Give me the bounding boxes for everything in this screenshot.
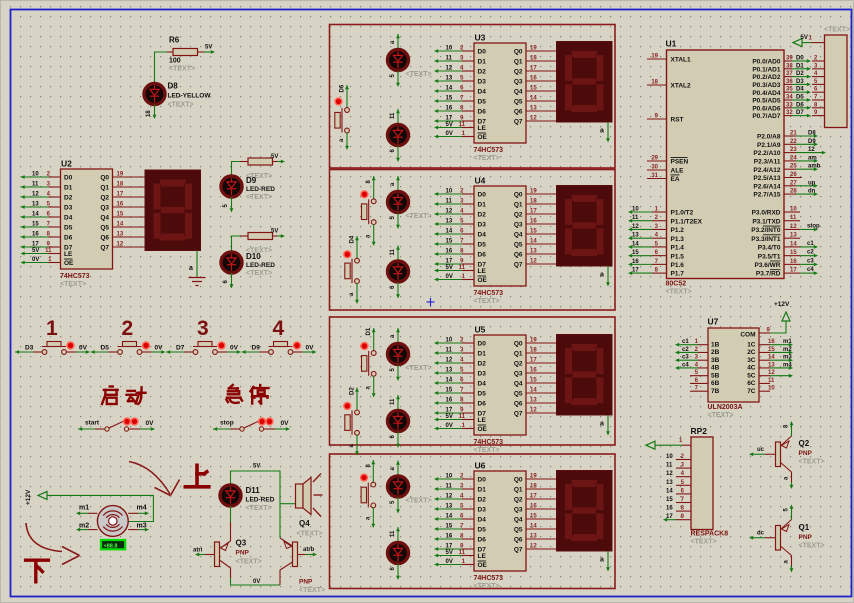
svg-text:Q3: Q3 [514, 222, 523, 229]
svg-text:37: 37 [786, 71, 793, 77]
svg-text:17: 17 [32, 242, 39, 248]
wire RP2 pin 4 net 12 [676, 476, 691, 478]
svg-text:36: 36 [786, 79, 793, 85]
wire below LED U6 upper [397, 497, 399, 511]
transistor Q2 [776, 442, 781, 467]
svg-text:10: 10 [790, 207, 797, 213]
wire U3 Q6 to display [526, 110, 557, 112]
wire U7 5C [759, 375, 770, 377]
wire U1 P1.2 net 12 [652, 228, 667, 230]
svg-text:P2.4/A12: P2.4/A12 [753, 167, 780, 174]
latch U4 [474, 186, 526, 286]
svg-text:P1.2: P1.2 [671, 227, 685, 234]
wire U3 D6 net 16 [462, 110, 474, 112]
wire below LED U5 lower [397, 432, 399, 446]
svg-text:Q0: Q0 [514, 341, 523, 348]
motor pin m1 [88, 512, 98, 514]
switch stop [213, 417, 290, 431]
svg-text:25: 25 [790, 164, 797, 170]
wire U7 1B [698, 344, 708, 346]
svg-text:Q2: Q2 [799, 439, 810, 448]
svg-text:16: 16 [32, 232, 39, 238]
svg-text:D0: D0 [478, 341, 487, 348]
svg-text:D2: D2 [796, 71, 804, 77]
svg-text:21: 21 [790, 131, 797, 137]
svg-text:10: 10 [768, 386, 775, 392]
wire U1 P1.1 net 11 [652, 220, 667, 222]
svg-text:P0.4/AD4: P0.4/AD4 [752, 90, 781, 97]
svg-text:11: 11 [446, 484, 453, 490]
wire U6 Q3 to display [526, 508, 557, 510]
svg-text:16: 16 [666, 506, 673, 512]
resistor above D9 [248, 158, 273, 165]
wire U4 Q2 to display [526, 213, 557, 215]
svg-text:5V: 5V [253, 464, 260, 470]
wire U6 Q6 to display [526, 538, 557, 540]
push button U5 A [360, 327, 376, 397]
svg-text:am: am [808, 155, 817, 161]
svg-text:13: 13 [768, 362, 775, 368]
svg-text:13: 13 [446, 504, 453, 510]
svg-text:Q6: Q6 [514, 537, 523, 544]
svg-text:Q5: Q5 [514, 527, 523, 534]
svg-text:<TEXT>: <TEXT> [297, 531, 323, 538]
svg-text:74HC573: 74HC573 [474, 439, 504, 446]
svg-text:P2.3/A11: P2.3/A11 [754, 159, 781, 166]
svg-text:74HC573: 74HC573 [60, 273, 90, 280]
svg-text:D2: D2 [478, 69, 487, 76]
wire U4 D5 net 15 [462, 243, 474, 245]
svg-text:<TEXT>: <TEXT> [474, 447, 500, 454]
svg-text:<TEXT>: <TEXT> [246, 505, 272, 512]
svg-text:Q5: Q5 [514, 391, 523, 398]
svg-text:Q1: Q1 [799, 523, 810, 532]
svg-text:Q6: Q6 [514, 401, 523, 408]
svg-text:0V: 0V [446, 559, 453, 565]
wire U4 LE [462, 270, 474, 272]
svg-text:PSEN: PSEN [671, 159, 689, 166]
svg-text:1B: 1B [711, 341, 720, 348]
svg-text:D4: D4 [478, 381, 487, 388]
wire below LED U5 upper [397, 365, 399, 379]
svg-text:0V: 0V [146, 420, 155, 427]
svg-text:+12V: +12V [25, 489, 32, 505]
wire U7 3B [698, 359, 708, 361]
wire RP2 pin1 power [682, 444, 691, 446]
svg-text:D7: D7 [176, 345, 185, 352]
svg-text:2: 2 [122, 317, 134, 340]
wire U5 D1 net 11 [462, 352, 474, 354]
svg-text:74HC573: 74HC573 [474, 575, 504, 582]
wire D10 to resistor [232, 236, 241, 252]
svg-text:14: 14 [446, 514, 453, 520]
wire Q4 base terminal atrb [298, 554, 306, 556]
wire U1 P0.1 net D1 to RP1 [784, 68, 792, 70]
svg-text:11: 11 [459, 550, 466, 556]
svg-text:D0: D0 [478, 49, 487, 56]
svg-text:atri: atri [193, 548, 203, 554]
svg-text:D6: D6 [340, 84, 346, 92]
svg-text:Q7: Q7 [514, 119, 523, 126]
svg-text:c3: c3 [807, 258, 814, 264]
svg-text:11: 11 [768, 378, 775, 384]
svg-text:29: 29 [651, 156, 658, 162]
wire Q4 collector [280, 562, 293, 570]
wire U4 Q5 to display [526, 243, 557, 245]
svg-text:P2.5/A13: P2.5/A13 [753, 175, 780, 182]
svg-text:10: 10 [446, 189, 453, 195]
svg-text:<TEXT>: <TEXT> [60, 281, 86, 288]
seven-segment display DS2 [557, 186, 613, 267]
svg-text:13: 13 [790, 233, 797, 239]
wire U3 Q2 to display [526, 70, 557, 72]
svg-text:3C: 3C [747, 357, 756, 364]
wire U6 OE [462, 564, 474, 566]
svg-text:30: 30 [651, 165, 658, 171]
svg-text:14: 14 [446, 229, 453, 235]
LED U4 upper [388, 192, 409, 213]
svg-text:U4: U4 [475, 176, 486, 186]
svg-text:c1: c1 [807, 241, 814, 247]
svg-text:11: 11 [790, 215, 797, 221]
svg-text:P0.5/AD5: P0.5/AD5 [752, 98, 781, 105]
svg-text:OE: OE [478, 426, 488, 433]
wire U5 D6 net 16 [462, 402, 474, 404]
wire Q3 base terminal atri [205, 554, 215, 556]
svg-text:P0.7/AD7: P0.7/AD7 [752, 113, 781, 120]
wire U1 P0.0 net D0 to RP1 [784, 60, 792, 62]
svg-text:PNP: PNP [299, 579, 313, 586]
label 下 [26, 560, 49, 582]
svg-text:16: 16 [446, 249, 453, 255]
svg-text:15: 15 [446, 388, 453, 394]
svg-text:74HC573: 74HC573 [474, 290, 504, 297]
wire above LED U3 upper [396, 34, 400, 38]
svg-text:12: 12 [790, 224, 797, 230]
svg-text:Q1: Q1 [514, 59, 523, 66]
svg-text:5V: 5V [32, 248, 39, 254]
svg-text:D4: D4 [478, 89, 487, 96]
svg-text:3: 3 [197, 317, 209, 340]
wire U2 D5 net 15 [49, 226, 61, 228]
svg-text:m4: m4 [783, 362, 792, 368]
svg-text:D2: D2 [478, 361, 487, 368]
svg-text:P0.6/AD6: P0.6/AD6 [752, 105, 781, 112]
wire U7 5B [690, 375, 708, 377]
svg-text:Q1: Q1 [100, 185, 109, 192]
svg-text:RST: RST [671, 117, 684, 124]
svg-text:12: 12 [446, 209, 453, 215]
svg-text:<TEXT>: <TEXT> [246, 194, 272, 201]
speaker LS1 [296, 484, 304, 508]
wire display ground node a [607, 415, 609, 433]
svg-text:0V: 0V [32, 257, 39, 263]
wire D10 down terminal [231, 273, 233, 285]
svg-text:Q6: Q6 [514, 252, 523, 259]
svg-text:D4: D4 [350, 235, 356, 243]
wire above LED U6 lower [396, 527, 400, 531]
wire U2 LE [49, 253, 61, 255]
svg-text:<TEXT>: <TEXT> [406, 213, 432, 220]
svg-text:Q2: Q2 [100, 195, 109, 202]
svg-text:amb: amb [808, 164, 821, 170]
svg-text:D1: D1 [478, 59, 487, 66]
svg-text:5V: 5V [446, 122, 453, 128]
svg-text:PNP: PNP [236, 550, 250, 557]
wire R6 right to 5V terminal [198, 51, 205, 53]
svg-text:P3.1/TXD: P3.1/TXD [752, 218, 780, 225]
svg-text:U6: U6 [475, 461, 486, 471]
svg-text:1: 1 [46, 317, 58, 340]
svg-text:P1.6: P1.6 [671, 262, 685, 269]
wire U6 D3 net 13 [462, 508, 474, 510]
wire U3 LE [462, 127, 474, 129]
wire R6 left [155, 52, 168, 84]
svg-text:D2: D2 [478, 212, 487, 219]
ground symbol [196, 251, 198, 278]
label 启动 [102, 387, 146, 405]
svg-text:P1.1/T2EX: P1.1/T2EX [671, 218, 703, 225]
svg-text:Q4: Q4 [514, 517, 523, 524]
svg-text:P2.2/A10: P2.2/A10 [753, 150, 780, 157]
push button U4 A [360, 176, 376, 246]
svg-text:P3.0/RXD: P3.0/RXD [752, 210, 781, 217]
svg-text:<TEXT>: <TEXT> [708, 412, 734, 419]
wire above LED U5 lower [396, 395, 400, 399]
push button 2 [91, 317, 166, 354]
svg-text:U5: U5 [475, 325, 486, 335]
svg-text:14: 14 [768, 355, 775, 361]
wire U6 Q5 to display [526, 528, 557, 530]
wire U4 D2 net 12 [462, 213, 474, 215]
svg-text:15: 15 [632, 250, 639, 256]
svg-text:17: 17 [446, 544, 453, 550]
wire RP1 common to 5V [811, 42, 825, 44]
wire U7 6B [690, 382, 708, 384]
svg-text:P1.3: P1.3 [671, 236, 685, 243]
svg-text:14: 14 [446, 378, 453, 384]
svg-text:11: 11 [390, 112, 396, 119]
svg-text:17: 17 [446, 408, 453, 414]
svg-text:a: a [189, 265, 193, 272]
latch U5 [474, 335, 526, 435]
push button U4 B [343, 235, 359, 304]
wire U3 D5 net 15 [462, 100, 474, 102]
svg-text:17: 17 [446, 116, 453, 122]
svg-text:74HC573: 74HC573 [474, 147, 504, 154]
svg-text:14: 14 [32, 212, 39, 218]
wire U1 P0.6 net D6 to RP1 [784, 107, 792, 109]
svg-text:<TEXT>: <TEXT> [691, 539, 717, 546]
svg-text:Q2: Q2 [514, 361, 523, 368]
wire U4 OE [462, 279, 474, 281]
svg-text:13: 13 [666, 480, 673, 486]
wire U2 OE [49, 262, 61, 264]
svg-text:Q0: Q0 [514, 192, 523, 199]
svg-text:RESPACK8: RESPACK8 [691, 531, 729, 538]
svg-text:15: 15 [446, 524, 453, 530]
transistor Q1 [776, 526, 781, 551]
push button 3 [166, 317, 241, 354]
svg-text:Q3: Q3 [236, 539, 247, 548]
svg-text:P3.6/WR: P3.6/WR [754, 262, 780, 269]
wire D8 down terminal node 18 [154, 105, 156, 116]
svg-text:a: a [600, 128, 604, 135]
svg-text:D3: D3 [478, 371, 487, 378]
wire Q4 emitter [280, 538, 293, 546]
wire U2 Q4 to display [113, 216, 146, 218]
wire D9 down terminal [231, 197, 233, 209]
svg-text:0V: 0V [446, 131, 453, 137]
wire U3 D7 net 17 [462, 120, 474, 122]
wire U6 D4 net 14 [462, 518, 474, 520]
svg-text:D5: D5 [796, 95, 804, 101]
wire U6 Q2 to display [526, 498, 557, 500]
wire U5 Q4 to display [526, 382, 557, 384]
frame box group 2 [330, 170, 616, 311]
svg-text:15: 15 [768, 347, 775, 353]
svg-text:P3.5/T1: P3.5/T1 [758, 253, 781, 260]
motor pin m4 [128, 512, 138, 514]
svg-text:OE: OE [478, 134, 488, 141]
svg-text:13: 13 [446, 219, 453, 225]
svg-text:1C: 1C [747, 341, 756, 348]
svg-text:<TEXT>: <TEXT> [799, 543, 825, 550]
wire U4 Q3 to display [526, 223, 557, 225]
LED D9 [221, 176, 242, 197]
svg-text:16: 16 [446, 106, 453, 112]
wire U5 D3 net 13 [462, 372, 474, 374]
wire D11 to Q3 emitter [230, 506, 232, 522]
svg-text:5V: 5V [205, 45, 212, 51]
wire Q1 emitter [781, 520, 792, 530]
wire U3 D1 net 11 [462, 60, 474, 62]
svg-text:<TEXT>: <TEXT> [799, 459, 825, 466]
resistor R6 [173, 49, 198, 56]
wire U1 P0.5 net D5 to RP1 [784, 99, 792, 101]
svg-text:U1: U1 [666, 39, 677, 49]
wire U4 D0 net 10 [462, 193, 474, 195]
svg-text:16: 16 [632, 259, 639, 265]
svg-text:ALE: ALE [671, 168, 685, 175]
wire U1 P3.2 [784, 228, 800, 230]
svg-text:16: 16 [790, 259, 797, 265]
svg-text:11: 11 [666, 463, 673, 469]
svg-text:m2: m2 [783, 347, 792, 353]
MCU U1 80C52 [667, 50, 785, 279]
switch start [78, 417, 155, 431]
resistor above D10 [248, 233, 273, 240]
wire U6 D1 net 11 [462, 488, 474, 490]
svg-text:13: 13 [446, 76, 453, 82]
svg-text:a: a [600, 557, 604, 564]
wire U6 Q4 to display [526, 518, 557, 520]
wire U1 XTAL1 [647, 58, 667, 60]
svg-text:P1.4: P1.4 [671, 245, 685, 252]
wire RP2 pin 3 net 11 [676, 467, 691, 469]
svg-text:11: 11 [390, 530, 396, 537]
svg-text:stop: stop [220, 420, 234, 427]
svg-text:D3: D3 [478, 507, 487, 514]
svg-text:Q7: Q7 [514, 262, 523, 269]
wire U1 P0.4 net D4 to RP1 [784, 91, 792, 93]
red curved arrow lower [26, 523, 62, 552]
svg-text:XTAL1: XTAL1 [671, 57, 691, 64]
svg-text:U2: U2 [61, 159, 72, 169]
wire U1 RST [647, 118, 667, 120]
wire U3 OE [462, 136, 474, 138]
svg-text:17: 17 [666, 514, 673, 520]
svg-text:Q1: Q1 [514, 202, 523, 209]
svg-text:c2: c2 [807, 250, 814, 256]
svg-text:LE: LE [478, 268, 487, 275]
svg-text:11: 11 [32, 182, 39, 188]
wire U1 P2.4 [784, 168, 796, 170]
svg-text:EA: EA [671, 176, 680, 183]
wire U5 OE [462, 428, 474, 430]
svg-text:27: 27 [790, 180, 797, 186]
wire U1 P2.6 [784, 185, 796, 187]
svg-text:0V: 0V [253, 579, 260, 585]
wire U6 Q0 to display [526, 478, 557, 480]
svg-text:5V: 5V [271, 154, 278, 160]
wire U6 Q1 to display [526, 488, 557, 490]
svg-text:start: start [85, 420, 100, 427]
svg-text:<TEXT>: <TEXT> [246, 270, 272, 277]
wire U5 Q3 to display [526, 372, 557, 374]
wire U1 P2.1 [784, 143, 796, 145]
svg-text:0V: 0V [446, 274, 453, 280]
svg-text:LED-RED: LED-RED [246, 497, 275, 504]
svg-text:22: 22 [790, 139, 797, 145]
svg-text:D0: D0 [796, 56, 804, 62]
svg-text:26: 26 [790, 172, 797, 178]
wire U5 D5 net 15 [462, 392, 474, 394]
svg-text:5V: 5V [446, 414, 453, 420]
svg-text:c2: c2 [682, 347, 689, 353]
svg-text:LE: LE [478, 553, 487, 560]
wire U2 Q2 to display [113, 196, 146, 198]
svg-text:LED-RED: LED-RED [246, 186, 275, 193]
wire U6 D5 net 15 [462, 528, 474, 530]
wire U1 P2.0 [784, 135, 796, 137]
wire U1 P0.3 net D3 to RP1 [784, 83, 792, 85]
wire U1 ALE [647, 169, 667, 171]
svg-text:D8: D8 [808, 131, 816, 137]
wire U2 D6 net 16 [49, 236, 61, 238]
svg-text:m1: m1 [783, 339, 792, 345]
wire U2 D0 net 10 [49, 176, 61, 178]
wire U3 Q1 to display [526, 60, 557, 62]
svg-text:12: 12 [32, 192, 39, 198]
wire U5 LE [462, 419, 474, 421]
svg-text:D3: D3 [25, 345, 34, 352]
wire motor supply [47, 495, 153, 521]
svg-text:12: 12 [446, 358, 453, 364]
motor pin m3 [128, 529, 138, 531]
svg-text:Q0: Q0 [514, 49, 523, 56]
svg-text:Q1: Q1 [514, 351, 523, 358]
svg-text:Q4: Q4 [514, 232, 523, 239]
svg-text:16: 16 [446, 534, 453, 540]
wire U5 D2 net 12 [462, 362, 474, 364]
svg-text:Q5: Q5 [100, 225, 109, 232]
svg-text:17: 17 [790, 268, 797, 274]
svg-text:D1: D1 [796, 63, 804, 69]
wire Q3 collector to 0V rail [220, 560, 231, 568]
wire U2 Q5 to display [113, 226, 146, 228]
svg-text:<TEXT>: <TEXT> [474, 298, 500, 305]
